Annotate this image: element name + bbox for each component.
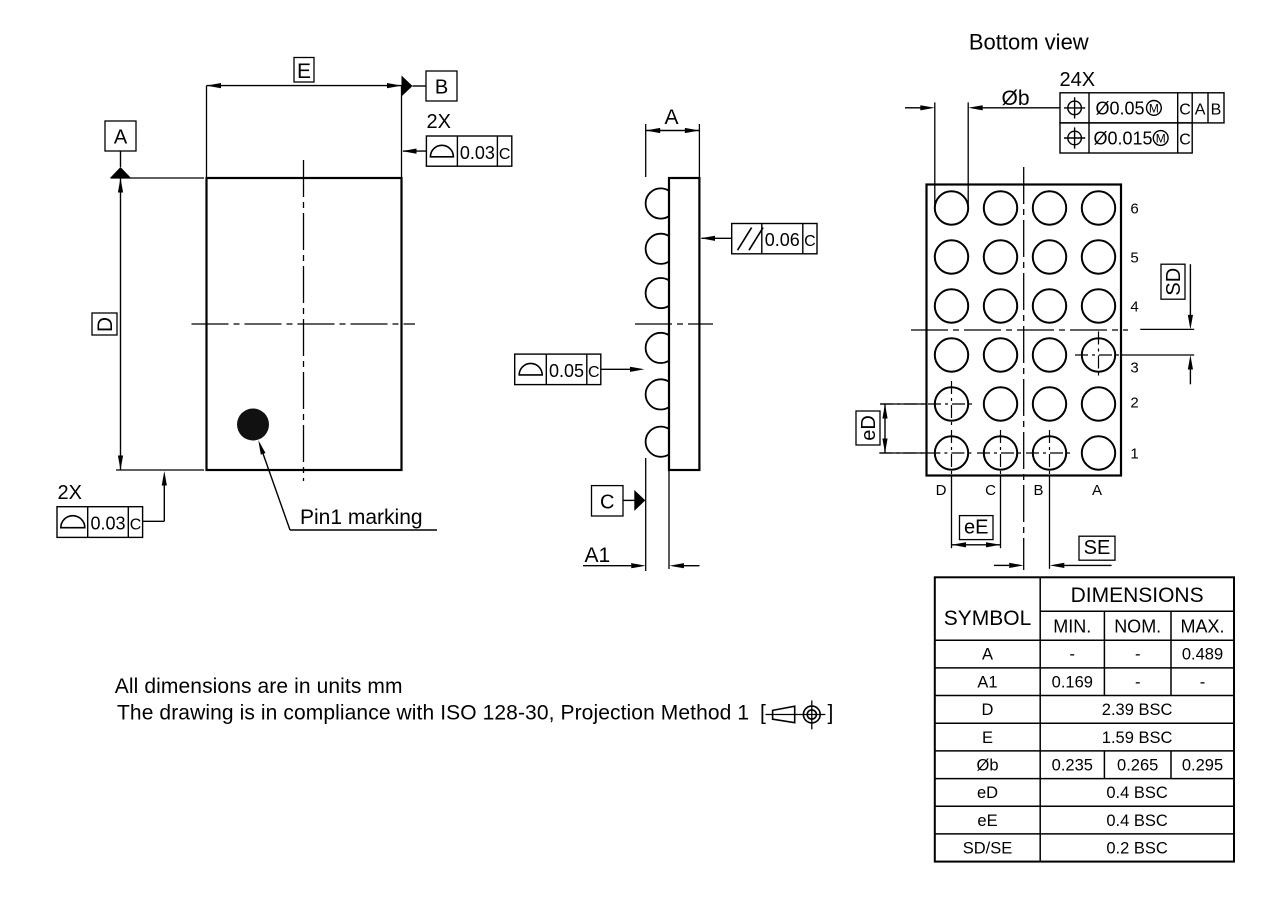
svg-text:2.39 BSC: 2.39 BSC bbox=[1102, 701, 1173, 719]
svg-text:C: C bbox=[588, 364, 600, 381]
svg-text:4: 4 bbox=[1130, 298, 1138, 315]
svg-text:D: D bbox=[94, 317, 117, 332]
svg-text:B: B bbox=[1033, 482, 1043, 499]
svg-text:eE: eE bbox=[977, 812, 997, 830]
svg-text:C: C bbox=[499, 146, 511, 163]
svg-text:0.4 BSC: 0.4 BSC bbox=[1106, 812, 1168, 830]
svg-text:]: ] bbox=[828, 702, 834, 725]
svg-text:M: M bbox=[1149, 101, 1159, 115]
svg-text:-: - bbox=[1070, 646, 1076, 664]
svg-text:0.05: 0.05 bbox=[549, 361, 584, 381]
svg-text:0.489: 0.489 bbox=[1182, 646, 1223, 664]
svg-text:[: [ bbox=[760, 702, 766, 725]
svg-text:DIMENSIONS: DIMENSIONS bbox=[1071, 584, 1204, 607]
svg-text:-: - bbox=[1200, 673, 1206, 691]
svg-text:E: E bbox=[297, 60, 311, 83]
svg-text:C: C bbox=[1179, 132, 1191, 149]
svg-text:D: D bbox=[982, 701, 994, 719]
svg-text:2X: 2X bbox=[427, 111, 451, 133]
svg-text:1: 1 bbox=[1130, 445, 1138, 462]
svg-text:3: 3 bbox=[1130, 359, 1138, 376]
svg-text:SE: SE bbox=[1084, 537, 1111, 559]
svg-text:0.235: 0.235 bbox=[1052, 756, 1093, 774]
svg-text:M: M bbox=[1156, 131, 1166, 145]
svg-text:0.06: 0.06 bbox=[765, 230, 800, 250]
svg-text:C: C bbox=[985, 482, 996, 499]
svg-text:eD: eD bbox=[858, 415, 880, 441]
svg-text:E: E bbox=[982, 729, 993, 747]
svg-text:C: C bbox=[600, 492, 614, 514]
svg-text:SD: SD bbox=[1163, 268, 1185, 296]
svg-text:NOM.: NOM. bbox=[1114, 617, 1161, 637]
svg-text:B: B bbox=[435, 77, 448, 99]
svg-text:C: C bbox=[804, 233, 816, 250]
svg-text:A: A bbox=[664, 106, 678, 129]
svg-text:24X: 24X bbox=[1060, 69, 1096, 91]
svg-text:-: - bbox=[1135, 646, 1141, 664]
svg-text:0.295: 0.295 bbox=[1182, 756, 1223, 774]
svg-text:A: A bbox=[982, 646, 993, 664]
svg-text:-: - bbox=[1135, 673, 1141, 691]
svg-text:The drawing is in compliance w: The drawing is in compliance with ISO 12… bbox=[117, 702, 749, 725]
svg-text:B: B bbox=[1211, 102, 1222, 119]
svg-text:A1: A1 bbox=[977, 673, 997, 691]
svg-text:MAX.: MAX. bbox=[1180, 617, 1224, 637]
svg-text:A: A bbox=[114, 127, 128, 149]
svg-text:D: D bbox=[936, 482, 947, 499]
svg-text:Pin1 marking: Pin1 marking bbox=[300, 506, 423, 529]
svg-text:Øb: Øb bbox=[976, 756, 998, 774]
svg-text:eD: eD bbox=[977, 784, 998, 802]
svg-text:Ø0.05: Ø0.05 bbox=[1096, 99, 1145, 119]
svg-text:6: 6 bbox=[1130, 200, 1138, 217]
svg-text:1.59 BSC: 1.59 BSC bbox=[1102, 729, 1173, 747]
svg-text:2: 2 bbox=[1130, 394, 1138, 411]
svg-text:A1: A1 bbox=[585, 544, 611, 567]
svg-text:0.2 BSC: 0.2 BSC bbox=[1106, 839, 1168, 857]
svg-text:0.03: 0.03 bbox=[460, 143, 495, 163]
svg-text:All dimensions are in units mm: All dimensions are in units mm bbox=[115, 675, 403, 698]
svg-text:SD/SE: SD/SE bbox=[963, 839, 1013, 857]
svg-text:2X: 2X bbox=[58, 482, 82, 504]
svg-text:0.265: 0.265 bbox=[1117, 756, 1158, 774]
svg-text:C: C bbox=[130, 517, 142, 534]
svg-text:0.03: 0.03 bbox=[90, 514, 125, 534]
svg-text:Bottom view: Bottom view bbox=[969, 29, 1089, 54]
svg-text:0.4 BSC: 0.4 BSC bbox=[1106, 784, 1168, 802]
svg-text:Øb: Øb bbox=[1002, 87, 1030, 110]
svg-text:SYMBOL: SYMBOL bbox=[944, 607, 1032, 630]
svg-text:A: A bbox=[1195, 102, 1206, 119]
svg-text:0.169: 0.169 bbox=[1052, 673, 1093, 691]
svg-text:C: C bbox=[1179, 102, 1191, 119]
svg-text:A: A bbox=[1092, 482, 1102, 499]
svg-text:Ø0.015: Ø0.015 bbox=[1094, 129, 1153, 149]
svg-text:eE: eE bbox=[964, 517, 988, 539]
svg-text:5: 5 bbox=[1130, 249, 1138, 266]
svg-text:MIN.: MIN. bbox=[1053, 617, 1091, 637]
